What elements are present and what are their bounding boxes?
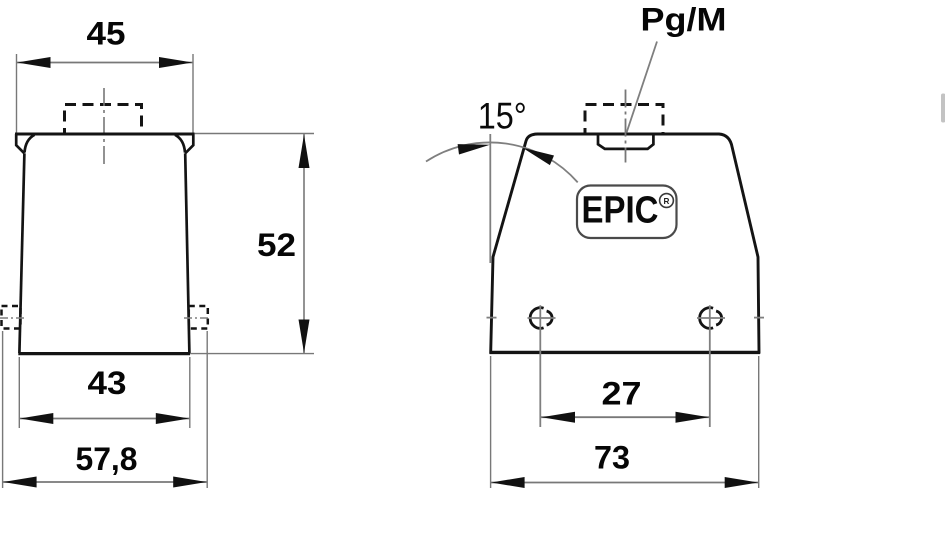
svg-text:52: 52 [257,227,296,263]
dim 27 arrow left [542,412,576,423]
flange top line [15,133,195,136]
svg-text:15°: 15° [478,96,527,137]
flange left fillet [25,135,35,153]
right pin center line [184,317,211,319]
dim 73 left extension [490,356,492,488]
svg-text:R: R [664,197,670,206]
EPIC registered mark circle [660,194,674,208]
15 deg reference vertical line [489,134,491,263]
dim 43 right extension [189,357,191,428]
dim 52 top extension [195,133,315,135]
svg-text:Pg/M: Pg/M [641,2,727,38]
right pin vertical line / dim 27 extension [709,305,711,427]
left pin horizontal center line [528,317,556,319]
body bottom line [18,352,190,355]
cable entry recess [598,134,653,149]
hood outline (side view) [491,134,759,352]
dim 73 right extension [758,356,760,488]
left guide pin (dashed) [2,306,21,329]
dim 52 dimension line [303,134,305,353]
center line (front view) [103,88,105,164]
right pivot pin circle [700,308,713,329]
body left edge [19,153,24,353]
dim 45 right extension line [192,54,194,133]
flange right fillet [175,135,185,153]
cable gland dashed rectangle (side view) [585,105,663,134]
cable entry dashed rectangle (front view) [65,105,142,134]
svg-text:73: 73 [594,440,630,476]
dim 45 dimension line [17,62,194,64]
center line (side view) [625,90,627,163]
svg-text:43: 43 [88,365,127,401]
svg-text:45: 45 [87,16,126,52]
dim 52 arrow up [299,135,310,169]
dim 52 arrow down [299,320,310,354]
dim 45 arrow left [17,57,51,68]
dim 43 arrow left [20,413,54,424]
svg-text:57,8: 57,8 [76,441,138,477]
left edge center tick [487,317,497,319]
EPIC logo box [577,186,677,239]
15 deg angle arc [426,142,578,182]
dim 52 bottom extension [190,353,314,355]
flange left lip [16,134,24,153]
dim 57,8 left extension [2,331,4,488]
svg-text:27: 27 [602,376,642,412]
left pivot pin arc mark [547,311,553,325]
dim 27 dimension line [541,416,710,418]
right edge center tick [754,317,764,319]
dim 57,8 arrow right [173,477,207,488]
dim 57,8 arrow left [3,477,37,488]
dim 73 arrow right [725,477,759,488]
scrollbar fragment [941,94,945,123]
Pg/M leader line [627,42,657,133]
svg-text:EPIC: EPIC [582,190,659,232]
dim 43 dimension line [19,418,190,420]
15 deg arrow at vertical line [458,144,490,154]
right pin horizontal center line [697,317,725,319]
left pin vertical line / dim 27 extension [539,305,541,427]
dim 43 arrow right [156,413,190,424]
dim 45 arrow right [159,57,193,68]
dim 27 arrow right [676,412,710,423]
dim 45 left extension line [16,54,18,133]
left pivot pin circle [530,308,543,329]
dim 73 arrow left [491,477,524,488]
dim 43 left extension [18,357,20,428]
dim 73 dimension line [491,482,759,484]
flange right lip [185,134,193,153]
right guide pin (dashed) [189,306,208,329]
body right edge [185,153,189,353]
dim 57,8 dimension line [3,481,208,483]
dim 57,8 right extension [206,331,208,488]
hood bottom line [490,351,761,354]
15 deg arrow at slant edge [523,148,555,165]
right pivot pin arc mark [716,311,722,325]
left pin center line [0,317,25,319]
